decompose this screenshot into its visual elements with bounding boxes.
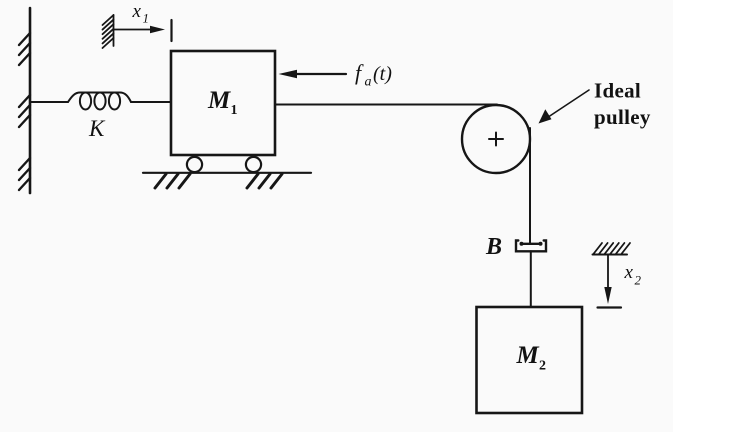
ground line xyxy=(143,172,311,174)
x2 reference hatched block xyxy=(593,243,631,255)
wire: rope from M1 to pulley xyxy=(276,104,498,106)
svg-text:x: x xyxy=(132,1,142,22)
damper B piston xyxy=(520,242,543,246)
svg-text:x: x xyxy=(624,262,634,283)
svg-text:f: f xyxy=(355,60,364,85)
label Ideal pulley xyxy=(594,79,651,130)
label M1 xyxy=(207,87,238,118)
damper B cylinder xyxy=(516,241,546,252)
svg-text:M: M xyxy=(207,87,231,114)
label fa(t) xyxy=(355,60,392,90)
wire: damper to mass M2 xyxy=(530,251,532,307)
ground hatching left group xyxy=(155,174,190,188)
spring K xyxy=(68,93,131,110)
ground hatching right group xyxy=(247,174,282,188)
pulley wheel xyxy=(462,105,530,173)
svg-text:K: K xyxy=(88,116,106,141)
svg-text:2: 2 xyxy=(539,359,546,374)
wire: wall to spring xyxy=(31,101,68,103)
pointer arrow to pulley xyxy=(539,90,590,124)
wire: spring to mass M1 xyxy=(131,101,171,103)
svg-text:B: B xyxy=(485,234,502,260)
svg-text:a: a xyxy=(365,75,372,90)
roller (right wheel) xyxy=(246,157,261,172)
wall (left fixed support) xyxy=(19,8,30,193)
label M2 xyxy=(516,342,547,374)
svg-text:1: 1 xyxy=(143,11,150,26)
label x2 xyxy=(624,262,642,288)
mass M2 xyxy=(477,307,583,413)
svg-text:Ideal: Ideal xyxy=(594,79,641,103)
wire: rope from pulley down to damper xyxy=(529,128,531,244)
x1 displacement arrow xyxy=(114,20,172,41)
label x1 xyxy=(132,1,150,26)
svg-text:1: 1 xyxy=(231,103,238,118)
svg-text:M: M xyxy=(516,342,540,369)
x1 reference hatched block xyxy=(103,15,114,48)
mass M1 xyxy=(171,51,275,155)
label K xyxy=(88,116,106,141)
pulley center + mark xyxy=(489,133,503,146)
roller (left wheel) xyxy=(187,157,202,172)
svg-text:pulley: pulley xyxy=(594,105,651,129)
force arrow fa(t) xyxy=(279,70,347,78)
svg-text:2: 2 xyxy=(635,273,642,288)
svg-text:(t): (t) xyxy=(373,63,392,85)
x2 displacement arrow xyxy=(598,255,622,308)
label B xyxy=(485,234,502,260)
